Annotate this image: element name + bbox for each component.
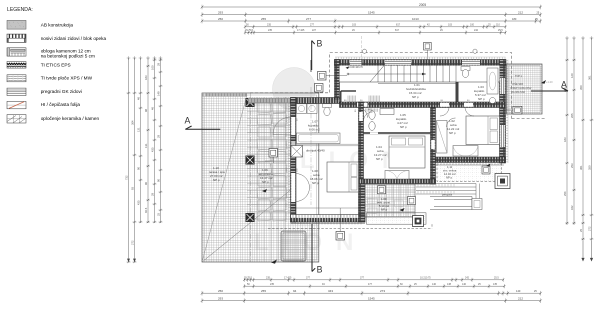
svg-text:TI ETICS EPS: TI ETICS EPS: [41, 62, 71, 67]
svg-text:205: 205: [570, 113, 574, 118]
svg-text:NP p: NP p: [312, 181, 319, 185]
beam lines with comb: [416, 184, 480, 210]
svg-text:131: 131: [136, 127, 140, 132]
svg-text:TOP p: TOP p: [515, 75, 523, 78]
svg-text:135: 135: [493, 283, 498, 286]
bottom wall of 1.04: [359, 179, 436, 184]
svg-text:NP p: NP p: [262, 180, 269, 184]
legend swatch AB konstrukcija: [7, 20, 26, 29]
section line B through plan: [310, 87, 312, 205]
room 1.02 soba: [447, 119, 460, 135]
svg-text:25.5: 25.5: [494, 276, 499, 279]
svg-text:250: 250: [218, 289, 223, 293]
svg-text:AB konstrukcija: AB konstrukcija: [41, 23, 74, 28]
svg-text:138: 138: [447, 283, 452, 286]
svg-text:255: 255: [261, 289, 266, 293]
svg-text:U REP KLIMA RN2: U REP KLIMA RN2: [510, 87, 532, 90]
svg-text:17.425: 17.425: [284, 276, 292, 279]
svg-text:1013: 1013: [412, 17, 419, 21]
svg-text:361: 361: [579, 165, 583, 170]
svg-text:255: 255: [261, 17, 266, 21]
svg-text:B: B: [317, 265, 323, 275]
legend swatch pregradni GK: [7, 88, 26, 95]
svg-text:304: 304: [130, 120, 134, 125]
svg-text:350: 350: [587, 165, 591, 170]
legend swatch TI ETICS EPS: [7, 62, 26, 69]
bed room 1.02: [466, 116, 500, 145]
svg-text:dimnjak 40/40: dimnjak 40/40: [306, 149, 325, 153]
svg-text:29.75.5: 29.75.5: [245, 29, 254, 32]
insulation band below bottom wall: [291, 222, 366, 224]
dark column on strip: [413, 216, 424, 227]
svg-text:29.75.5: 29.75.5: [244, 276, 253, 279]
wardrobe 1.04: [385, 171, 409, 180]
svg-text:1545: 1545: [368, 11, 375, 15]
svg-text:477: 477: [368, 283, 373, 286]
svg-text:90: 90: [156, 179, 160, 182]
pergola dashed boundary: [268, 224, 432, 228]
vertical wall corridor/1.04: [359, 102, 364, 184]
terrace top edge hatched band: [202, 93, 247, 97]
porch edge band: [248, 98, 291, 103]
svg-text:opločenje keramika / kamen: opločenje keramika / kamen: [41, 116, 100, 121]
nested Ls: [430, 197, 472, 210]
svg-text:na betonskoj podlozi 5 cm: na betonskoj podlozi 5 cm: [41, 53, 95, 58]
svg-text:TI tvrde ploče XPS / MW: TI tvrde ploče XPS / MW: [41, 76, 93, 81]
svg-text:46: 46: [136, 97, 140, 100]
svg-text:1545: 1545: [368, 297, 375, 301]
1.08 right wall: [359, 184, 366, 222]
hall label: [406, 83, 426, 99]
svg-text:377: 377: [306, 276, 311, 279]
axis dash-dot lines: [250, 93, 252, 262]
stone slabs: [257, 102, 287, 221]
legend swatch HI folija: [7, 101, 26, 108]
right wall of 1.04: [431, 108, 436, 185]
dresser 1.02: [453, 146, 478, 157]
svg-text:10.210.75: 10.210.75: [420, 276, 431, 279]
svg-text:NP p: NP p: [449, 131, 456, 135]
legend swatch XPS/MW: [7, 75, 26, 82]
svg-text:pergola: pergola: [442, 193, 452, 197]
zim. vešna dotted room: [437, 162, 502, 182]
svg-text:100: 100: [150, 65, 154, 70]
drain arrow: [271, 260, 277, 264]
svg-text:250: 250: [218, 17, 223, 21]
svg-text:242: 242: [465, 276, 470, 279]
svg-text:293: 293: [218, 11, 223, 15]
svg-text:235: 235: [266, 276, 271, 279]
svg-text:NP p: NP p: [446, 176, 453, 180]
terrace label: [209, 166, 225, 182]
svg-text:29: 29: [150, 193, 154, 196]
svg-text:25.5: 25.5: [498, 29, 503, 32]
svg-text:227: 227: [312, 29, 317, 32]
right exterior wall: [500, 60, 506, 164]
svg-text:235: 235: [270, 283, 275, 286]
svg-text:94: 94: [293, 289, 297, 293]
svg-text:235: 235: [268, 29, 273, 32]
svg-text:25: 25: [579, 229, 583, 232]
svg-text:140: 140: [432, 283, 437, 286]
B section line through plan: [310, 60, 312, 72]
svg-text:VIŠE SPA: VIŠE SPA: [512, 83, 524, 86]
svg-text:29: 29: [156, 63, 160, 66]
bed room 1.08: [327, 162, 359, 192]
svg-text:93: 93: [130, 187, 134, 190]
svg-text:435: 435: [136, 200, 140, 205]
B bottom: [311, 224, 313, 272]
room 1.04 soba: [374, 145, 387, 161]
svg-text:277: 277: [306, 17, 311, 21]
svg-text:100: 100: [470, 23, 475, 26]
insulation ticks around exterior walls: [288, 57, 508, 215]
path label: [259, 168, 273, 184]
svg-text:732: 732: [124, 175, 128, 180]
svg-text:+0.00=103.70: +0.00=103.70: [348, 66, 363, 69]
room 1.07 kupatilo: [308, 120, 320, 136]
svg-text:A: A: [185, 116, 191, 126]
small direction arrow: [262, 189, 267, 193]
svg-text:40.5: 40.5: [144, 207, 148, 213]
svg-text:90: 90: [144, 182, 148, 185]
columns: [246, 98, 255, 222]
legend swatch blok opeka: [7, 34, 26, 42]
svg-text:NP p: NP p: [213, 178, 220, 182]
svg-text:90: 90: [136, 167, 140, 170]
svg-text:nosivi zidani zidovi / blok op: nosivi zidani zidovi / blok opeka: [41, 36, 107, 41]
svg-text:293: 293: [218, 297, 223, 301]
1.05/1.04 partition: [364, 132, 431, 134]
spa pool: [281, 231, 306, 261]
svg-text:120: 120: [570, 73, 574, 78]
tiny door tags: [297, 100, 471, 172]
svg-text:180: 180: [512, 17, 517, 21]
svg-text:183: 183: [144, 75, 148, 80]
svg-text:NP p: NP p: [381, 208, 388, 212]
svg-text:377: 377: [360, 276, 365, 279]
svg-text:HI / čepičasta folija: HI / čepičasta folija: [41, 102, 81, 107]
coarse module grid of path: [247, 97, 291, 262]
svg-text:817: 817: [395, 29, 400, 32]
dim extension line: [361, 36, 363, 59]
svg-text:NP p: NP p: [478, 97, 485, 101]
closet 1.02: [437, 121, 448, 154]
entry horizontal wall: [291, 98, 340, 104]
svg-text:140: 140: [462, 283, 467, 286]
vešeraj room grid: [365, 184, 415, 217]
svg-text:212: 212: [518, 297, 523, 301]
leader box 15: [336, 232, 345, 241]
svg-text:KLIMA SN2: KLIMA SN2: [512, 91, 526, 94]
svg-text:NP p: NP p: [412, 95, 419, 99]
svg-text:LEGENDA:: LEGENDA:: [7, 7, 33, 13]
svg-text:110: 110: [496, 23, 500, 26]
door arcs: [273, 107, 474, 202]
svg-text:183: 183: [563, 137, 567, 142]
room 1.03 kupatilo: [474, 85, 486, 101]
window gaps in top wall: [350, 60, 362, 65]
svg-text:242: 242: [474, 29, 479, 32]
svg-text:272: 272: [587, 226, 591, 231]
svg-text:2005: 2005: [419, 3, 426, 7]
radiator combs: [348, 96, 380, 103]
svg-text:NP p: NP p: [400, 125, 407, 129]
roof line details: downspouts + marker: [362, 42, 477, 59]
wall between 1.01 and 1.03: [456, 66, 459, 103]
svg-text:46: 46: [150, 107, 154, 110]
svg-text:140: 140: [516, 289, 521, 293]
terrace diagonal: [202, 190, 291, 262]
svg-text:NP p: NP p: [376, 157, 383, 161]
marker boxes in vešeraj: [378, 186, 386, 194]
svg-text:277: 277: [310, 23, 315, 26]
room 1.08 soba: [310, 169, 323, 185]
svg-text:350: 350: [579, 85, 583, 90]
svg-text:162: 162: [570, 205, 574, 210]
B top: [311, 41, 313, 70]
1.02 bottom wall: [436, 157, 506, 163]
svg-text:343: 343: [328, 289, 333, 293]
svg-text:235: 235: [267, 23, 272, 26]
svg-text:+1.20: +1.20: [546, 80, 553, 84]
marker box in path: [269, 149, 278, 158]
svg-text:361: 361: [587, 75, 591, 80]
svg-text:BO: BO: [368, 109, 371, 111]
vjetrobran partition L: [341, 91, 356, 103]
wall outlines: [291, 60, 507, 223]
svg-text:103: 103: [448, 23, 453, 26]
stair-left vertical wall: [335, 60, 340, 100]
big column box: [495, 174, 510, 189]
room 1.05 kupatilo: [396, 113, 408, 129]
section A arrow right: [531, 90, 568, 92]
svg-text:B: B: [317, 38, 323, 48]
hall bottom wall: [340, 102, 506, 108]
small flag arrow: [541, 80, 546, 84]
svg-text:A: A: [561, 80, 567, 90]
svg-text:817: 817: [396, 23, 401, 26]
svg-text:254: 254: [563, 191, 567, 196]
svg-text:pregradni GK zidovi: pregradni GK zidovi: [41, 89, 82, 94]
svg-text:29: 29: [156, 135, 160, 138]
svg-text:212: 212: [518, 11, 523, 15]
svg-text:131: 131: [144, 143, 148, 148]
chimney: [291, 146, 303, 158]
left exterior wall: [291, 98, 297, 223]
legend swatch keramika: [7, 115, 26, 123]
house bottom wall: glazing + masonry: [291, 215, 366, 218]
svg-text:273: 273: [380, 289, 385, 293]
dotted walkway strip: [367, 213, 427, 224]
svg-text:103: 103: [352, 23, 357, 26]
top wall: [335, 60, 507, 66]
bed room 1.04: [389, 136, 425, 168]
svg-text:98: 98: [144, 109, 148, 112]
svg-text:253: 253: [570, 163, 574, 168]
svg-text:272: 272: [130, 240, 134, 245]
ticks below 1.02 bottom wall: [436, 164, 504, 166]
svg-text:25: 25: [156, 213, 160, 216]
svg-text:435: 435: [150, 147, 154, 152]
svg-text:17.425: 17.425: [297, 29, 305, 32]
legend swatch obloga kamenom: [7, 48, 26, 56]
svg-text:149: 149: [156, 91, 160, 96]
